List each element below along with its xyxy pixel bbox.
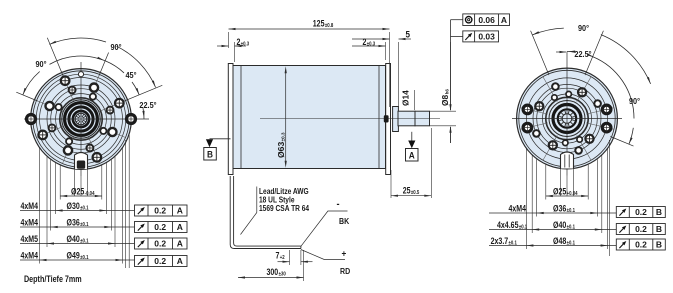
- dimension row &#216;40: [489, 229, 616, 231]
- vertical centerline: [566, 52, 568, 176]
- extension line right &#216;40: [601, 155, 603, 233]
- radial hole centerlines: [586, 108, 614, 115]
- svg-text:A: A: [501, 15, 507, 25]
- dimension row &#216;25: [546, 195, 588, 197]
- dimension row &#216;36: [20, 226, 135, 228]
- vertical centerline: [80, 62, 82, 176]
- arrow middle arc left end: [23, 88, 27, 95]
- hub spokes: [83, 118, 87, 120]
- svg-text:A: A: [177, 206, 183, 216]
- svg-text:0.03: 0.03: [478, 32, 495, 42]
- frame concentricity 0.06 A: [463, 14, 510, 26]
- pilot boss Ø25: [60, 98, 102, 140]
- cable exit arch at bottom: [75, 153, 88, 170]
- svg-text:B: B: [656, 207, 662, 217]
- radial extension line 112.5deg: [47, 38, 63, 76]
- bolt circle Ø30: [56, 94, 107, 145]
- dim arrow right &#216;30: [99, 209, 106, 211]
- top right feature control frames: [451, 14, 510, 42]
- radial extension line 157.5deg: [16, 92, 37, 101]
- hub ring inner: [73, 111, 89, 127]
- side view centerline: [260, 118, 440, 120]
- svg-text:A: A: [177, 222, 183, 232]
- 4xM5 holes on Ø40 bolt circle: [90, 84, 98, 92]
- dim 2 left: [234, 42, 236, 62]
- dim arrow left &#216;25: [60, 195, 67, 197]
- extension line right &#216;30: [105, 163, 107, 215]
- chamfer circle: [33, 71, 129, 167]
- side view of motor: [228, 64, 440, 175]
- svg-text:4xM5: 4xM5: [21, 234, 39, 244]
- arch right extension: [87, 169, 89, 196]
- hub ring: [553, 105, 581, 133]
- wire note leader: [256, 187, 258, 213]
- leader lines to frames: [451, 19, 463, 21]
- svg-text:90°: 90°: [35, 59, 46, 69]
- dim 5: [398, 42, 400, 107]
- small arrow pointing at vertical centerline: [556, 51, 566, 53]
- svg-text:0.06: 0.06: [478, 15, 495, 25]
- horizontal centerline: [512, 118, 622, 120]
- dim 2 right: [385, 42, 387, 60]
- rotor slots: [572, 115, 575, 118]
- center circle: [562, 114, 572, 124]
- shaft Ø8: [415, 111, 430, 126]
- svg-text:A: A: [177, 239, 183, 249]
- leader to RD: [301, 250, 345, 260]
- arrow at vertical: [568, 51, 575, 53]
- svg-text:-: -: [337, 199, 340, 210]
- svg-text:RD: RD: [340, 266, 350, 276]
- svg-text:4xM4: 4xM4: [509, 204, 527, 214]
- radial extension line 67.5deg: [99, 53, 109, 76]
- feature control frame &#216;36 B: [616, 207, 665, 218]
- svg-text:B: B: [207, 149, 213, 159]
- rear cover plate: [228, 64, 233, 175]
- dim arrow left &#216;36: [51, 226, 58, 228]
- inner circle: [543, 94, 592, 143]
- dim 7: [289, 250, 291, 265]
- dim arrow left &#216;40: [47, 242, 54, 244]
- right view extension lines and dimension rows: [489, 140, 665, 256]
- extension line right &#216;36: [110, 159, 112, 230]
- 4x4.65 through holes: [523, 105, 532, 114]
- bolt circle Ø48: [526, 78, 607, 159]
- middle arc 22.5 + 90: [567, 50, 575, 53]
- arch right extension: [573, 169, 575, 197]
- svg-text:45°: 45°: [125, 70, 136, 80]
- right end view: motor rear face: [512, 52, 622, 176]
- dim 125: [228, 32, 230, 48]
- side view dimensions: [204, 19, 456, 198]
- cable exit arch: [561, 152, 574, 169]
- extension line left &#216;36: [536, 159, 538, 217]
- dimension row &#216;48: [489, 245, 616, 247]
- dim arrow right &#216;49: [116, 259, 123, 261]
- arch left extension: [560, 169, 562, 197]
- arch left extension: [74, 169, 76, 196]
- dimension row &#216;25: [60, 195, 102, 197]
- boss inner ring: [549, 101, 585, 137]
- extension line left &#216;48: [525, 148, 527, 249]
- svg-text:5: 5: [406, 29, 411, 39]
- bolt circle Ø36: [51, 89, 112, 150]
- extension line left &#216;49: [39, 148, 41, 264]
- retaining clip at shaft root: [384, 115, 389, 122]
- feature control frame &#216;30: [135, 205, 188, 216]
- small holes: [566, 91, 571, 96]
- body left edge line: [240, 66, 242, 169]
- svg-text:90°: 90°: [110, 42, 121, 52]
- extension line left &#216;25: [59, 165, 61, 200]
- leader to BK: [301, 211, 348, 246]
- datum A flag: [411, 132, 413, 141]
- 4xM4 holes on Ø30 bolt circle: [90, 94, 96, 100]
- shaft boss ring: [393, 107, 399, 132]
- pilot boss Ø25: [546, 97, 588, 139]
- svg-text:Ø14: Ø14: [401, 90, 411, 106]
- dim arrow left &#216;49: [40, 259, 47, 261]
- svg-text:4xM4: 4xM4: [21, 201, 39, 211]
- motor body: [233, 66, 386, 169]
- front flange plate: [386, 64, 391, 175]
- wire end: [300, 246, 302, 248]
- svg-text:0.2: 0.2: [635, 207, 647, 217]
- feature control frame &#216;40 B: [616, 224, 665, 235]
- 4xM4 tapped holes on Ø49 bolt circle: [115, 99, 124, 108]
- shaft Ø14: [398, 111, 415, 126]
- extension line right &#216;40: [114, 156, 116, 247]
- dim arrow left &#216;30: [56, 209, 63, 211]
- radial extension line 22.5deg: [124, 85, 162, 101]
- arrow small arc at centerline: [142, 111, 144, 118]
- arrow middle arc right end: [136, 88, 140, 95]
- svg-text:+: +: [342, 248, 347, 258]
- small hole at top: [78, 72, 83, 77]
- svg-text:B: B: [656, 224, 662, 234]
- svg-text:1569 CSA TR 64: 1569 CSA TR 64: [259, 203, 310, 213]
- left view angular dimensions: [16, 38, 162, 119]
- outer housing circle Ø63: [31, 69, 132, 170]
- svg-text:90°: 90°: [629, 96, 640, 106]
- dim Ø63: [285, 70, 287, 164]
- hub ring mid: [69, 107, 93, 131]
- svg-text:4xM4: 4xM4: [21, 218, 39, 228]
- dimension row &#216;49: [20, 259, 135, 261]
- outer 90deg arc: [49, 38, 106, 44]
- datum B flag: [210, 138, 231, 140]
- feature control frame &#216;40: [135, 238, 188, 249]
- extension line right &#216;48: [607, 148, 609, 249]
- center extension: [566, 176, 568, 197]
- radial extension -22.5: [610, 137, 633, 147]
- svg-text:0.2: 0.2: [635, 224, 647, 234]
- extension lines from left view to dimension rows: [20, 134, 187, 284]
- svg-text:0.2: 0.2: [154, 206, 166, 216]
- extension line right &#216;36: [596, 159, 598, 217]
- dim arrow right &#216;36: [104, 226, 111, 228]
- frame runout 0.03: [463, 31, 499, 42]
- 4xM4 tapped holes: [578, 88, 586, 96]
- shaft center circle: [75, 113, 87, 125]
- dim 300: [303, 250, 305, 281]
- dim arrow right &#216;25: [95, 195, 102, 197]
- extension line left &#216;30: [55, 163, 57, 215]
- feature control frame &#216;49: [135, 256, 188, 267]
- side through-holes at 3 and 9 o clock: [127, 115, 136, 124]
- bolt circle Ø40: [533, 85, 601, 153]
- svg-text:22.5°: 22.5°: [574, 49, 591, 59]
- lead wire: [230, 176, 350, 281]
- radial hole centerlines: [99, 100, 126, 111]
- boss inner ring: [62, 100, 100, 138]
- svg-text:B: B: [656, 240, 662, 250]
- svg-text:0.2: 0.2: [635, 240, 647, 250]
- left end view: motor front face: [24, 62, 149, 176]
- small 22.5deg arc: [143, 108, 144, 119]
- extension line right &#216;49: [122, 148, 124, 264]
- arrow outer arc right end: [152, 81, 156, 88]
- svg-text:BK: BK: [339, 216, 349, 226]
- dimension row &#216;30: [20, 210, 135, 212]
- svg-text:22.5°: 22.5°: [139, 100, 156, 110]
- 4xM4 holes on Ø36 bolt circle: [107, 107, 114, 114]
- feature control frame &#216;36: [135, 222, 188, 233]
- bolt circle Ø49: [40, 78, 123, 161]
- radial extension 112.5: [531, 31, 549, 75]
- body right edge line: [378, 66, 380, 169]
- svg-text:Depth/Tiefe 7mm: Depth/Tiefe 7mm: [24, 274, 82, 284]
- arrow middle arc at 67.5: [97, 57, 104, 61]
- Ø8 dim arrows: [450, 42, 452, 110]
- extension line left &#216;25: [545, 164, 547, 199]
- extension line left &#216;36: [50, 159, 52, 230]
- hub ring inner: [558, 109, 576, 127]
- dim Ø14 label: [414, 90, 416, 110]
- extension lines of side holes: [125, 140, 127, 268]
- extension line left &#216;40: [46, 156, 48, 247]
- plain holes on Ø40: [552, 83, 559, 90]
- middle chained arc 90/45: [23, 72, 40, 95]
- dimension row &#216;40: [20, 243, 135, 245]
- radial extension 67.5: [585, 31, 603, 75]
- arrow outer arc left end: [49, 41, 56, 45]
- feature control frame &#216;48 B: [616, 239, 665, 250]
- svg-text:90°: 90°: [578, 23, 589, 33]
- extension line right &#216;25: [101, 165, 103, 200]
- hub ring outer: [65, 103, 98, 136]
- extension line right &#216;25: [587, 164, 589, 199]
- svg-text:0.2: 0.2: [154, 222, 166, 232]
- outer 90 arc: [532, 28, 563, 35]
- right view angular dimensions: [531, 23, 651, 146]
- svg-text:A: A: [177, 256, 183, 266]
- svg-text:A: A: [409, 150, 415, 160]
- rim circle: [36, 74, 126, 164]
- dim arrow right &#216;40: [108, 242, 115, 244]
- dimension row &#216;36: [489, 212, 616, 214]
- Ø8 extension lines: [430, 110, 457, 112]
- svg-text:0.2: 0.2: [154, 239, 166, 249]
- chamfer circle: [519, 70, 615, 166]
- bolt circle Ø36: [537, 88, 598, 149]
- extension line left &#216;40: [531, 155, 533, 233]
- bolt circle Ø40: [47, 85, 115, 153]
- dim 25: [390, 170, 392, 198]
- svg-text:4xM4: 4xM4: [21, 251, 39, 261]
- svg-text:0.2: 0.2: [154, 256, 166, 266]
- outer housing circle: [517, 68, 618, 169]
- horizontal centerline: [24, 118, 149, 120]
- center extension: [80, 176, 82, 196]
